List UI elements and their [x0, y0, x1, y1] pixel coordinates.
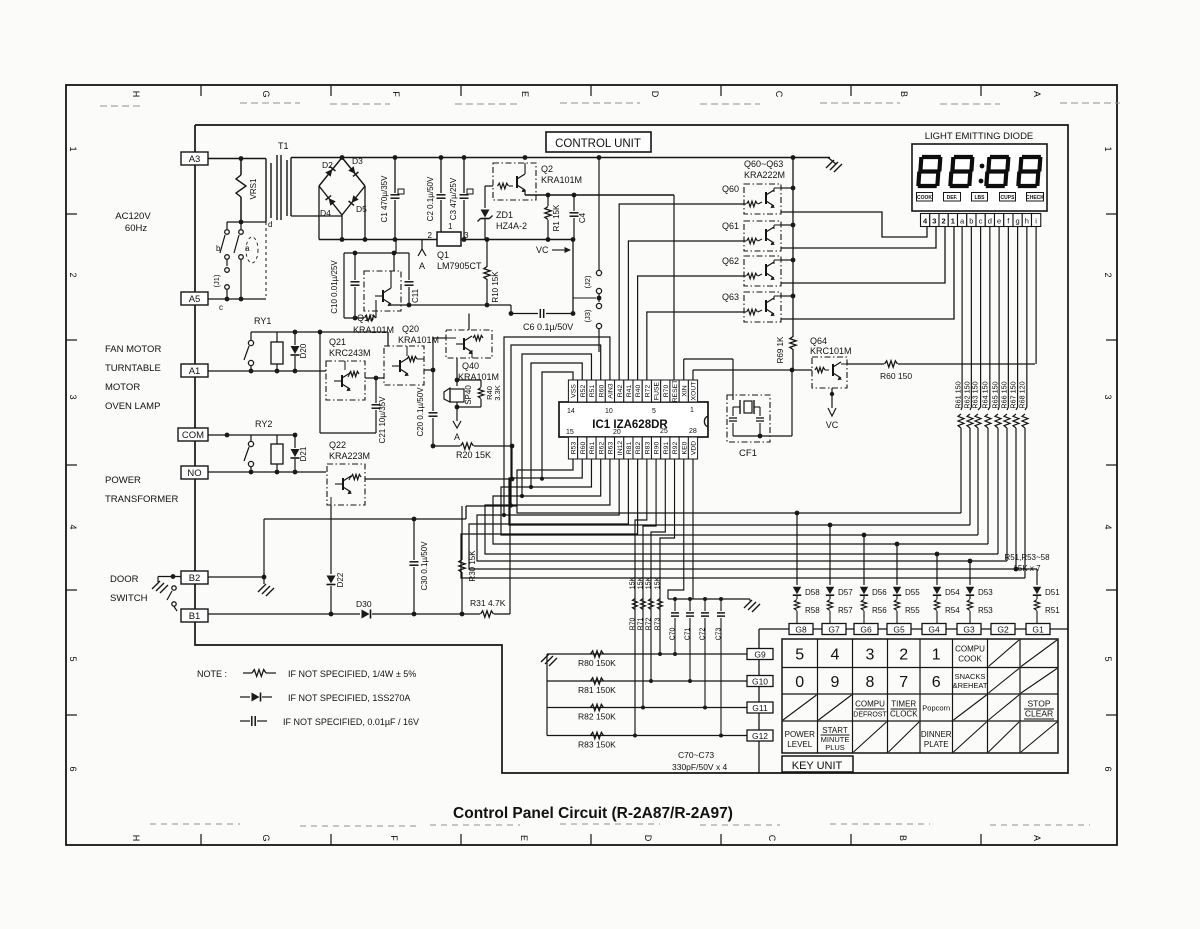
border frame [66, 85, 1117, 845]
ground door switch [152, 577, 168, 594]
jumper J2 [583, 158, 602, 303]
diode D22 [327, 505, 346, 614]
svg-text:COMPU: COMPU [855, 700, 885, 709]
LED digit 8 (2) [950, 157, 973, 186]
svg-text:6: 6 [932, 674, 941, 691]
svg-text:D58: D58 [805, 588, 820, 597]
svg-text:FAN MOTOR: FAN MOTOR [105, 344, 161, 355]
wire KE0 VDD drops [668, 459, 693, 599]
note legend [197, 669, 419, 727]
wire VC vertical [572, 240, 574, 314]
svg-text:R51: R51 [589, 385, 596, 398]
svg-text:0: 0 [795, 674, 804, 691]
svg-text:1: 1 [932, 646, 941, 663]
svg-text:R83 150K: R83 150K [578, 740, 616, 750]
svg-text:B: B [898, 835, 908, 841]
svg-text:XIN: XIN [681, 385, 688, 396]
wire Q60 output [781, 212, 927, 237]
svg-text:R92: R92 [672, 442, 679, 455]
svg-text:T1: T1 [278, 141, 289, 151]
terminal COM [178, 428, 208, 441]
svg-text:CONTROL UNIT: CONTROL UNIT [555, 138, 641, 150]
resistor R10 15K [484, 240, 500, 306]
wire IC1 top left staircase [502, 337, 610, 517]
svg-text:C10 0.01µ/25V: C10 0.01µ/25V [330, 260, 339, 314]
resistor R40 3.3K [457, 380, 502, 407]
svg-text:H: H [131, 91, 141, 98]
wire bus IC1 to key matrix [461, 459, 1037, 578]
svg-text:D: D [650, 91, 660, 98]
svg-text:VC: VC [536, 245, 549, 255]
KEY UNIT box [782, 756, 853, 772]
svg-text:(J2): (J2) [583, 275, 592, 288]
svg-text:R62: R62 [598, 442, 605, 455]
svg-text:SWITCH: SWITCH [110, 593, 148, 604]
svg-text:G3: G3 [963, 625, 975, 635]
svg-text:D: D [643, 835, 653, 842]
label DOOR SWITCH [110, 574, 148, 604]
wire nested corners top right [619, 195, 746, 380]
svg-text:POWER: POWER [785, 730, 815, 739]
label R51 R53-58 15K x 7 [1004, 553, 1050, 573]
key matrix grid [782, 639, 1058, 753]
svg-text:R1 15K: R1 15K [552, 204, 561, 231]
key Popcorn [922, 704, 950, 713]
svg-text:C73: C73 [716, 627, 723, 640]
diode D20 [291, 332, 309, 370]
label VC arrow [536, 245, 571, 255]
wire G9 row [547, 653, 747, 655]
svg-text:7: 7 [899, 674, 908, 691]
svg-text:Q60~Q63: Q60~Q63 [744, 159, 783, 169]
svg-text:IC1 IZA628DR: IC1 IZA628DR [592, 419, 668, 431]
svg-text:ZD1: ZD1 [496, 210, 513, 220]
svg-text:H: H [131, 835, 141, 842]
diodes D51-D58 and resistors R51-R58 [793, 587, 1060, 624]
wire A3 rail [208, 156, 266, 161]
svg-text:Q60: Q60 [722, 184, 739, 194]
svg-text:LEVEL: LEVEL [787, 740, 812, 749]
resistor R31 4.7K [470, 598, 510, 617]
wire Q22 collector bus [365, 446, 514, 481]
wire G rows common [546, 654, 548, 736]
svg-text:C21 10µ/35V: C21 10µ/35V [378, 396, 387, 444]
key unit enclosure [758, 629, 760, 773]
svg-text:5: 5 [68, 656, 78, 661]
svg-text:OVEN LAMP: OVEN LAMP [105, 401, 160, 412]
svg-text:5: 5 [652, 408, 656, 415]
svg-text:DINNER: DINNER [921, 730, 952, 739]
svg-text:R82 150K: R82 150K [578, 712, 616, 722]
resonator CF1 [727, 395, 792, 459]
wire Q62 output [781, 227, 945, 283]
label POWER TRANSFORMER [105, 475, 179, 505]
svg-text:Q1: Q1 [437, 250, 449, 260]
svg-text:COM: COM [182, 430, 204, 441]
label C70-C73 330pF [672, 750, 728, 772]
svg-text:R72: R72 [644, 385, 651, 398]
IC1 bottom pin boxes [568, 437, 697, 459]
svg-text:e: e [997, 217, 1001, 226]
relay RY2 [208, 419, 297, 472]
capacitor C10 [330, 253, 360, 320]
svg-text:C11: C11 [411, 288, 420, 303]
svg-text:Q63: Q63 [722, 292, 739, 302]
transistor Q60 [722, 184, 781, 214]
dashed link d [246, 222, 266, 296]
svg-text:Q61: Q61 [722, 221, 739, 231]
svg-text:G11: G11 [752, 703, 768, 713]
diode D21 [291, 435, 309, 472]
wire B2 loop top [264, 506, 517, 577]
LED display box [912, 144, 1047, 211]
svg-text:Q62: Q62 [722, 256, 739, 266]
label LIGHT EMITTING DIODE [925, 131, 1034, 142]
svg-text:G5: G5 [893, 625, 905, 635]
wire B1 row [208, 612, 360, 617]
LED digit 8 (4) [1018, 157, 1041, 186]
wire B2 row [208, 575, 266, 580]
wire Q10 feed [344, 240, 408, 319]
svg-text:VSS: VSS [571, 384, 578, 398]
svg-text:R72: R72 [646, 617, 653, 630]
svg-text:5: 5 [1103, 656, 1113, 661]
key DINNER PLATE [921, 730, 952, 749]
svg-text:C72: C72 [700, 627, 707, 640]
svg-text:15K x 7: 15K x 7 [1013, 564, 1041, 573]
terminal G12 [747, 730, 773, 741]
svg-text:3: 3 [68, 394, 78, 399]
svg-text:Q22: Q22 [329, 440, 346, 450]
svg-text:C70~C73: C70~C73 [678, 750, 714, 760]
svg-text:R41: R41 [626, 385, 633, 398]
wire Q63 output [781, 227, 954, 319]
svg-text:(J1): (J1) [212, 274, 221, 287]
svg-text:R90: R90 [654, 442, 661, 455]
node A stub [418, 240, 426, 272]
svg-text:Q2: Q2 [541, 164, 553, 174]
svg-text:9: 9 [831, 674, 840, 691]
capacitor C6 [511, 309, 575, 332]
jumper J1 [212, 260, 229, 299]
wire XOUT row [693, 368, 812, 436]
zone letters bottom [131, 834, 1042, 841]
resistor R60 150 [880, 361, 1035, 381]
capacitor C11 [405, 253, 421, 307]
svg-text:R81: R81 [626, 442, 633, 455]
resistor R30 15K [459, 506, 477, 616]
svg-text:B: B [899, 91, 909, 97]
switch b [216, 222, 229, 259]
wire R31 up [509, 479, 511, 614]
wire bridge secondary [291, 186, 365, 240]
resistor R20 15K [431, 443, 515, 460]
svg-text:R80 150K: R80 150K [578, 658, 616, 668]
svg-text:Q40: Q40 [462, 361, 479, 371]
svg-text:AC120V: AC120V [115, 211, 151, 222]
svg-text:CHECK: CHECK [1026, 195, 1044, 201]
varistor VRS1 [236, 159, 258, 223]
terminal B2 [181, 571, 208, 584]
svg-text:G4: G4 [928, 625, 940, 635]
svg-text:G2: G2 [997, 625, 1009, 635]
svg-text:C: C [774, 91, 784, 98]
scan noise dashes top [100, 103, 1120, 826]
svg-text:2: 2 [942, 217, 946, 226]
svg-text:R42: R42 [617, 385, 624, 398]
wire A5 [208, 297, 266, 312]
terminal G4 [922, 624, 946, 635]
svg-text:G1: G1 [1032, 625, 1044, 635]
svg-text:KRC101M: KRC101M [810, 346, 852, 356]
svg-text:KRA222M: KRA222M [744, 170, 785, 180]
ground B2 [258, 577, 274, 596]
transistor Q2 KRA101M [493, 163, 582, 200]
resistor R83 150K [578, 732, 616, 749]
svg-text:D3: D3 [352, 156, 363, 166]
terminal G9 [747, 649, 773, 660]
svg-text:D53: D53 [978, 588, 993, 597]
svg-text:IF NOT SPECIFIED, 1/4W ± 5%: IF NOT SPECIFIED, 1/4W ± 5% [288, 669, 416, 679]
label FAN MOTOR TURNTABLE MOTOR OVEN LAMP [105, 344, 161, 412]
wire Q61 output [781, 227, 936, 248]
svg-text:15K: 15K [655, 576, 662, 589]
capacitor C21 [365, 376, 387, 444]
svg-text:R56: R56 [872, 606, 887, 615]
svg-text:R60: R60 [580, 442, 587, 455]
svg-text:POWER: POWER [105, 475, 141, 486]
svg-text:R53: R53 [978, 606, 993, 615]
wire NO row [208, 470, 326, 475]
svg-text:15K: 15K [646, 576, 653, 589]
svg-text:G: G [261, 834, 271, 841]
wire G11 row [547, 707, 747, 709]
svg-text:R52: R52 [580, 385, 587, 398]
svg-text:A: A [1032, 835, 1042, 841]
transistor Q64 KRC101M [810, 336, 852, 388]
svg-text:&REHEAT: &REHEAT [953, 681, 988, 690]
svg-text:6: 6 [68, 766, 78, 771]
svg-text:60Hz: 60Hz [125, 223, 147, 234]
label AC120V 60Hz [115, 211, 151, 234]
svg-text:R63 150: R63 150 [971, 381, 980, 408]
wire Q21 collector row [251, 330, 388, 346]
svg-text:R55: R55 [905, 606, 920, 615]
svg-text:VDD: VDD [691, 441, 698, 455]
resistor R82 150K [578, 704, 616, 721]
svg-text:15K: 15K [638, 576, 645, 589]
wire main rail top [291, 155, 830, 160]
ground C70 wire [744, 599, 760, 612]
terminal G1 [1026, 624, 1050, 635]
svg-text:LIGHT EMITTING DIODE: LIGHT EMITTING DIODE [925, 131, 1034, 142]
transistor Q10 KRA101M [353, 253, 401, 335]
svg-text:DEF.: DEF. [947, 195, 958, 201]
svg-text:15: 15 [566, 429, 574, 436]
speaker SP40 [444, 358, 473, 409]
svg-text:R53: R53 [571, 442, 578, 455]
svg-text:15K: 15K [630, 576, 637, 589]
wire LED pin i to R60 [1035, 227, 1037, 365]
key START MINUTE PLUS [821, 726, 850, 752]
svg-text:R63: R63 [608, 442, 615, 455]
resistor R1 15K [545, 195, 561, 240]
svg-text:VC: VC [826, 420, 839, 430]
svg-text:SNACKS: SNACKS [955, 672, 986, 681]
title Control Panel Circuit [453, 805, 733, 822]
svg-text:A3: A3 [189, 154, 201, 165]
svg-text:KEY UNIT: KEY UNIT [792, 760, 843, 772]
svg-text:A: A [419, 261, 425, 271]
LED colon [979, 164, 985, 184]
resistor R81 150K [578, 678, 616, 695]
svg-text:SP40: SP40 [464, 385, 473, 405]
svg-text:F: F [391, 91, 401, 97]
svg-text:RY1: RY1 [254, 316, 271, 326]
IC U1 IZA628DR body [559, 402, 708, 437]
svg-text:AIN3: AIN3 [608, 383, 615, 398]
zone letters top [131, 90, 1042, 97]
key POWER LEVEL [785, 730, 815, 749]
svg-text:COMPU: COMPU [955, 644, 985, 653]
node A arrow down [453, 407, 461, 442]
svg-text:C2 0.1µ/50V: C2 0.1µ/50V [426, 176, 435, 221]
svg-text:D30: D30 [356, 599, 372, 609]
svg-text:G12: G12 [752, 731, 768, 741]
svg-text:XOUT: XOUT [691, 382, 698, 401]
capacitor C3 [449, 158, 473, 240]
transistor Q20 KRA101M [384, 324, 439, 385]
svg-text:IF NOT SPECIFIED, 1SS270A: IF NOT SPECIFIED, 1SS270A [288, 693, 410, 703]
capacitors C70-C73 [668, 597, 750, 738]
wire drops to diodes [795, 511, 1037, 585]
schematic outline box [195, 125, 1068, 773]
key blank cells row 3 [783, 695, 1019, 720]
wire switch a to A5 [240, 260, 242, 299]
terminal G11 [747, 702, 773, 713]
svg-text:C71: C71 [685, 627, 692, 640]
svg-text:F: F [389, 835, 399, 841]
key digits row 1 [795, 646, 941, 663]
capacitor C4 [570, 195, 588, 240]
key blank cells row 2 [989, 669, 1058, 694]
wire LED segment drops [0, 0, 1, 1]
svg-text:D21: D21 [299, 446, 308, 461]
svg-text:3.3K: 3.3K [493, 385, 502, 400]
svg-text:CLEAR: CLEAR [1025, 709, 1053, 719]
zener ZD1 HZ4A-2 [478, 186, 528, 240]
svg-text:4: 4 [831, 646, 840, 663]
svg-text:NOTE :: NOTE : [197, 669, 227, 679]
capacitor C30 [410, 519, 430, 616]
svg-text:R10 15K: R10 15K [491, 271, 500, 303]
svg-text:LM7905CT: LM7905CT [437, 261, 482, 271]
svg-text:TURNTABLE: TURNTABLE [105, 363, 161, 374]
svg-text:RESET: RESET [672, 380, 679, 403]
svg-text:b: b [969, 217, 973, 226]
jumper J3 [583, 303, 602, 352]
key blank cells row 1 [989, 640, 1058, 667]
svg-text:G: G [261, 90, 271, 97]
svg-text:b: b [216, 244, 221, 253]
svg-text:START: START [822, 726, 848, 735]
LED digit 8 (3) [986, 157, 1009, 186]
wire XIN to CF1 [684, 359, 733, 400]
terminal A5 [181, 292, 208, 305]
svg-text:1: 1 [448, 222, 453, 231]
svg-text:D20: D20 [299, 343, 308, 358]
svg-text:TRANSFORMER: TRANSFORMER [105, 494, 179, 505]
terminal G2 [991, 624, 1015, 635]
svg-text:R71: R71 [638, 617, 645, 630]
svg-text:Q21: Q21 [329, 337, 346, 347]
key digits row 2 [795, 674, 941, 691]
svg-text:R31 4.7K: R31 4.7K [470, 598, 506, 608]
svg-text:R66 150: R66 150 [1000, 381, 1009, 408]
svg-text:E: E [520, 91, 530, 97]
terminal G5 [887, 624, 911, 635]
ground G9 row [541, 654, 557, 666]
svg-text:A: A [1032, 91, 1042, 97]
svg-text:25: 25 [660, 428, 668, 435]
svg-text:B1: B1 [189, 611, 201, 622]
svg-text:c: c [219, 303, 223, 312]
svg-text:10: 10 [605, 408, 613, 415]
svg-text:3: 3 [866, 646, 875, 663]
wire Q40 top [469, 311, 513, 330]
svg-text:KE0: KE0 [681, 441, 688, 454]
svg-text:R40: R40 [635, 385, 642, 398]
svg-text:IF NOT SPECIFIED, 0.01µF / 16: IF NOT SPECIFIED, 0.01µF / 16V [283, 717, 419, 727]
svg-text:8: 8 [866, 674, 875, 691]
wire Q64 emitter VC [826, 388, 839, 430]
svg-text:G6: G6 [860, 625, 872, 635]
svg-text:1: 1 [1103, 146, 1113, 151]
svg-text:330pF/50V x 4: 330pF/50V x 4 [672, 762, 728, 772]
capacitor C20 [416, 370, 438, 446]
relay RY1 [244, 316, 283, 371]
svg-text:R54: R54 [945, 606, 960, 615]
CONTROL UNIT title box [546, 132, 651, 152]
svg-text:DEFROST: DEFROST [853, 712, 887, 719]
svg-text:R70: R70 [663, 385, 670, 398]
svg-text:g: g [1016, 217, 1020, 226]
svg-text:NO: NO [187, 468, 201, 479]
svg-text:IN12: IN12 [617, 441, 624, 456]
svg-text:TIMER: TIMER [891, 700, 916, 709]
svg-text:R81 150K: R81 150K [578, 685, 616, 695]
svg-text:Q10: Q10 [357, 313, 374, 323]
svg-text:Popcorn: Popcorn [922, 704, 950, 713]
svg-text:R73: R73 [655, 617, 662, 630]
svg-text:C: C [767, 835, 777, 842]
svg-text:14: 14 [567, 408, 575, 415]
svg-text:2: 2 [68, 272, 78, 277]
svg-text:Q64: Q64 [810, 336, 827, 346]
svg-text:HZ4A-2: HZ4A-2 [496, 221, 527, 231]
capacitor C1 [380, 158, 404, 240]
transistor Q21 KRC243M [326, 337, 371, 400]
svg-text:CUPS: CUPS [1001, 195, 1016, 201]
svg-text:4: 4 [68, 524, 78, 529]
svg-text:C4: C4 [578, 212, 587, 223]
wire Q21 bottom loop [320, 332, 376, 433]
svg-text:C70: C70 [670, 627, 677, 640]
wire Q64 collector R60 [847, 363, 884, 365]
node d [227, 220, 272, 229]
wire G12 row [547, 735, 747, 737]
svg-text:R70: R70 [630, 617, 637, 630]
